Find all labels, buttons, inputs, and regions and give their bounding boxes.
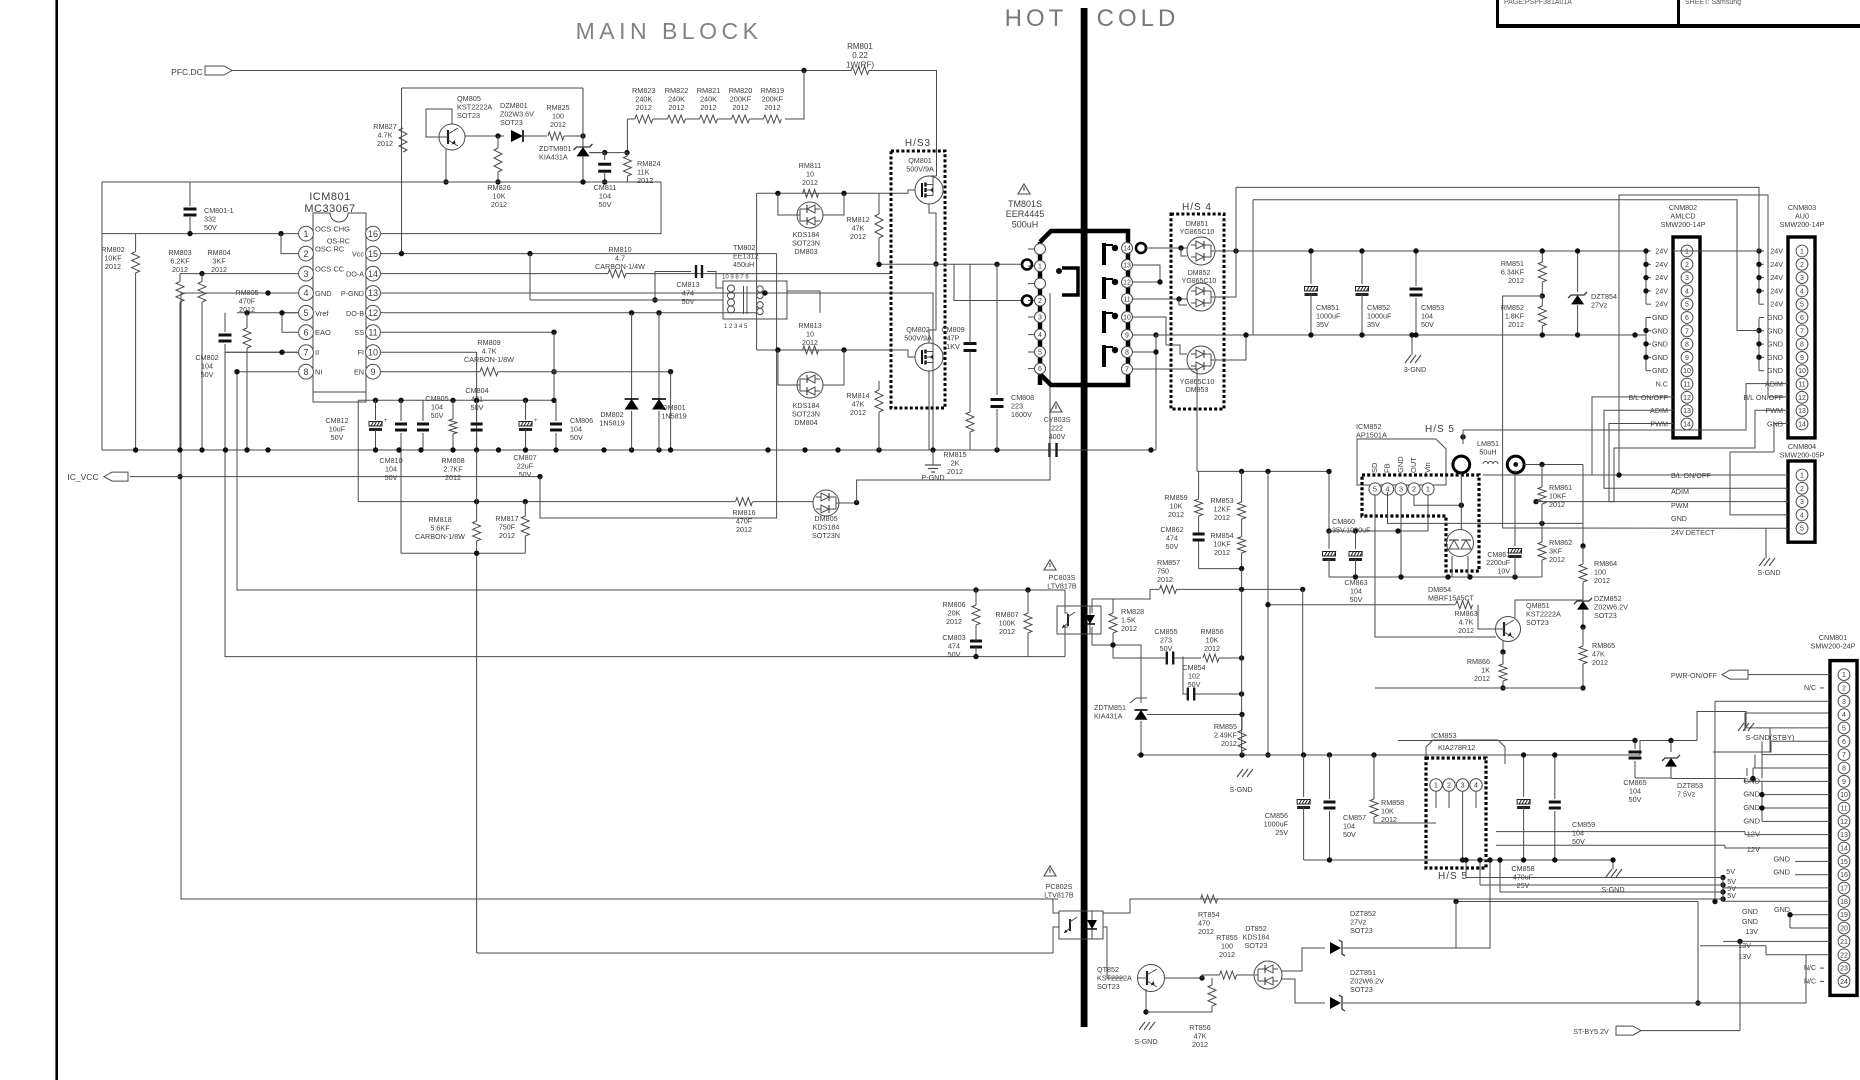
svg-text:LM85150uH: LM85150uH (1477, 439, 1499, 456)
wire qm851 collector (1515, 600, 1583, 618)
wire source node (879, 263, 1023, 265)
wire gate1 rail (757, 192, 890, 194)
wire pin4 route (1388, 495, 1584, 523)
wire gnd feeds 802 (1635, 334, 1646, 336)
capacitor CM803 (970, 640, 982, 643)
wire 5v bus (1722, 878, 1724, 902)
svg-text:DM8011N5819: DM8011N5819 (661, 403, 686, 420)
svg-text:8: 8 (1842, 766, 1846, 773)
diode DM802 (631, 313, 633, 399)
junction (1533, 499, 1538, 504)
wire dm852 out (1215, 251, 1236, 297)
wire (753, 501, 813, 503)
svg-text:16: 16 (368, 229, 378, 239)
svg-text:S-GND: S-GND (1757, 568, 1780, 577)
wire pin6 left (282, 313, 298, 332)
transistor QM802 (MOSFET) (915, 343, 943, 371)
resistor RM804 (198, 282, 206, 302)
junction (279, 310, 284, 315)
svg-text:1: 1 (1800, 249, 1804, 256)
svg-text:2: 2 (1800, 262, 1804, 269)
wire RM825 to node (564, 135, 583, 137)
junction (373, 398, 378, 403)
wire pgnd (932, 450, 934, 465)
junction (187, 231, 192, 236)
wire qt852 emitter (1145, 989, 1147, 1012)
wire reg bottom rail (1329, 576, 1542, 578)
resistor RM827 (399, 128, 407, 152)
svg-text:22: 22 (1840, 952, 1848, 959)
wire divider bottom (401, 552, 525, 554)
wire pin3 down (1400, 495, 1402, 577)
pin 10 FI (366, 345, 381, 360)
svg-text:2: 2 (1038, 298, 1042, 305)
wire qm851 emitter (1502, 641, 1504, 652)
resistor RM817 (521, 516, 529, 536)
svg-text:PAGE:PSPF381A01A: PAGE:PSPF381A01A (1504, 0, 1572, 6)
svg-text:GND: GND (1652, 366, 1668, 375)
transformer pin 1 (1035, 261, 1046, 272)
junction rail dots (133, 447, 138, 452)
wire pin15 net v (529, 254, 531, 300)
wire rm854 to rail (1241, 569, 1243, 590)
resistor RM866 (1499, 664, 1507, 681)
junction 5v bundle (1720, 875, 1725, 880)
capacitor CM859 (1554, 755, 1556, 799)
svg-text:HOT: HOT (1005, 5, 1068, 32)
svg-text:9: 9 (1800, 355, 1804, 362)
svg-text:9: 9 (1125, 333, 1129, 340)
wire 5v feed (1480, 884, 1723, 886)
transformer pin nc (1035, 278, 1046, 289)
junction (1632, 738, 1637, 743)
svg-text:GND: GND (1774, 905, 1790, 914)
pin 2 OSC RC (299, 246, 314, 261)
wire rm857 (1150, 588, 1159, 590)
svg-text:H/S3: H/S3 (905, 138, 931, 149)
wire dm803 loop (778, 193, 797, 215)
capacitor CM804 (476, 400, 478, 421)
junction (265, 290, 270, 295)
pin 11 SS (366, 325, 381, 340)
svg-text:SD: SD (1370, 462, 1379, 473)
wire bottom reg rail (1375, 687, 1583, 689)
wire QM802 source (928, 371, 930, 450)
svg-text:6: 6 (1800, 315, 1804, 322)
resistor RM813 (803, 346, 819, 354)
svg-text:GND: GND (1743, 816, 1760, 825)
svg-text:H/S 5: H/S 5 (1425, 424, 1455, 435)
pin 7 II (299, 345, 314, 360)
svg-text:7: 7 (1685, 328, 1689, 335)
capacitor CM810a (400, 400, 402, 421)
svg-text:11: 11 (368, 327, 377, 337)
svg-text:13: 13 (1798, 408, 1806, 415)
svg-text:S-GND: S-GND (1601, 885, 1624, 894)
wire 24v feeds 802 (1645, 251, 1647, 304)
wire gnd 803 p14 (1774, 424, 1788, 453)
wire pin2 stub (281, 234, 298, 254)
ground S-GND sec (1405, 355, 1425, 363)
wire rm863 left (1268, 604, 1455, 606)
wire icm853 pin lead (1435, 792, 1437, 809)
resistor RM856b (1203, 654, 1219, 662)
zener DZM852 (1577, 601, 1589, 610)
junction (1138, 752, 1143, 757)
svg-text:7: 7 (1800, 328, 1804, 335)
transformer pin 5 (1035, 347, 1046, 358)
pin 1 OCS CHG (299, 226, 314, 241)
CNM804 pin 4 label (1785, 514, 1788, 516)
svg-text:16: 16 (1840, 872, 1848, 879)
transformer pin 10 (1122, 312, 1133, 323)
diode DM801 (658, 313, 660, 399)
junction (1233, 248, 1238, 253)
svg-text:11: 11 (1840, 806, 1847, 813)
wire dzt852 out (1343, 860, 1490, 948)
pin 13 P-GND (366, 286, 381, 301)
svg-text:14: 14 (368, 269, 378, 279)
svg-text:PWR-ON/OFF: PWR-ON/OFF (1671, 671, 1718, 680)
wire pin9 (1133, 334, 1156, 336)
wire gnd bus 803 (1758, 318, 1760, 371)
wire stair v2 (1697, 902, 1699, 1004)
wire gnd rail sec2 (1311, 334, 1646, 336)
svg-text:10: 10 (368, 347, 378, 357)
svg-text:24V DETECT: 24V DETECT (1671, 528, 1715, 537)
svg-text:3: 3 (1038, 315, 1042, 322)
svg-text:24V: 24V (1770, 260, 1783, 269)
ground S-GND icm853 (1606, 869, 1626, 877)
svg-text:QM801500V/9A: QM801500V/9A (906, 156, 934, 173)
wire PWM 802 (1609, 424, 1788, 502)
wire pin11 SS (381, 331, 554, 333)
svg-text:2: 2 (1800, 486, 1804, 493)
svg-text:10: 10 (1840, 792, 1848, 799)
ICM853 pin 4 (1470, 779, 1482, 791)
wire rm816 row (358, 501, 735, 503)
svg-text:7: 7 (1842, 752, 1846, 759)
resistor RT854 (1201, 895, 1218, 903)
wire gnd rail sec (1156, 334, 1311, 336)
wire (653, 118, 668, 120)
wire lm851 right (1524, 464, 1583, 466)
capacitor CM860a (1328, 531, 1330, 549)
svg-text:GND: GND (1767, 326, 1783, 335)
transformer pin 3 (1035, 312, 1046, 323)
svg-text:12: 12 (1683, 395, 1691, 402)
wire x1268 drop (1267, 471, 1269, 755)
svg-text:GND: GND (1767, 353, 1783, 362)
zener DZT852 (1330, 942, 1341, 954)
svg-text:9: 9 (370, 367, 375, 377)
wire pin7 left (225, 351, 298, 353)
svg-text:24: 24 (1840, 979, 1848, 986)
CNM804 pin 2 label (1785, 487, 1788, 489)
svg-text:IC_VCC: IC_VCC (67, 472, 98, 482)
resistor RM812 (875, 214, 883, 238)
dual diode DM804 (797, 372, 823, 398)
wire long rail right (1456, 901, 1698, 903)
svg-text:12V: 12V (1747, 845, 1760, 854)
wire 24v rail (1215, 250, 1646, 252)
wire RM810 right (626, 273, 890, 275)
wire QM801 source (929, 204, 936, 264)
wire dzt851 out (1343, 955, 1806, 1003)
svg-text:3-GND: 3-GND (1404, 365, 1426, 374)
svg-text:13: 13 (368, 288, 378, 298)
svg-text:24V: 24V (1770, 286, 1783, 295)
wire gnd pins 9-12 (1762, 780, 1830, 782)
svg-text:PFC.DC: PFC.DC (171, 67, 203, 77)
resistor RM825 (548, 132, 564, 140)
svg-text:Vcc: Vcc (352, 250, 364, 259)
wire x756 drop (756, 193, 758, 350)
optocoupler PC802S (1044, 866, 1056, 876)
wire icm853 bottom rail (1304, 859, 1613, 861)
dual diode DM854 (1447, 530, 1474, 557)
pin 3 OCS CC (299, 266, 314, 281)
svg-text:5: 5 (1800, 302, 1804, 309)
wire pin14 DO-A (381, 273, 608, 275)
svg-text:1 2 3 4 5: 1 2 3 4 5 (724, 324, 748, 330)
junction (668, 369, 673, 374)
wire 13v pins (1723, 940, 1830, 942)
capacitor CM855 (1166, 652, 1168, 665)
resistor RM823 (635, 115, 653, 123)
resistor RM815 (966, 412, 974, 432)
junction (801, 68, 806, 73)
wire prim1 (1022, 264, 1023, 265)
wire opto802 left bot (477, 952, 1053, 954)
wire pin11 to dm852 (1133, 298, 1187, 300)
wire 24v feeds 803 (1758, 251, 1760, 304)
transformer pin 9 (1122, 330, 1133, 341)
junction (1353, 574, 1358, 579)
junction (244, 310, 249, 315)
wire rm851 tap (1503, 296, 1788, 528)
svg-text:2: 2 (1412, 485, 1416, 494)
wire RM809 right (498, 371, 671, 373)
sheet border (55, 0, 58, 1080)
junction (443, 179, 448, 184)
capacitor CM809 (964, 342, 977, 345)
svg-text:8: 8 (1125, 350, 1129, 357)
resistor RM805 (243, 328, 251, 348)
junction (580, 133, 585, 138)
resistor RM816 (736, 498, 753, 506)
ICM852 pin 3 (1395, 483, 1407, 495)
wire divider chain drop (785, 71, 804, 120)
junction (551, 330, 556, 335)
resistor RM858 (1370, 799, 1378, 817)
resistor RM852 (1538, 306, 1546, 326)
wire opto out bottom (1065, 627, 1068, 657)
svg-text:H/S 4: H/S 4 (1182, 202, 1212, 213)
svg-text:20: 20 (1840, 926, 1848, 933)
resistor RM863 (1456, 601, 1473, 609)
wire rt855 (1202, 975, 1220, 978)
svg-text:KIA278R12: KIA278R12 (1438, 743, 1475, 752)
dual diode DM851 (1187, 237, 1215, 265)
junction (973, 654, 978, 659)
heatsink H/S5b block (1426, 758, 1486, 868)
regulator ICM852 outline (1357, 439, 1446, 485)
wire dm852 loop (1179, 299, 1187, 305)
ground S-GND zd (1237, 769, 1257, 777)
wire gate2 rail (757, 349, 890, 351)
wire gnd rail in (1671, 779, 1762, 782)
svg-text:OSC RC: OSC RC (315, 245, 345, 254)
wire zener drop (582, 88, 584, 182)
junction (602, 179, 607, 184)
wire ADIM 802 (1604, 410, 1788, 488)
capacitor CM808 (996, 264, 998, 395)
svg-text:8: 8 (1685, 342, 1689, 349)
svg-text:24V: 24V (1655, 260, 1668, 269)
svg-text:ICM853: ICM853 (1431, 731, 1457, 740)
wire opto802 right top (1103, 899, 1723, 913)
capacitor CM807e (525, 400, 527, 420)
wire vcc drop (540, 254, 777, 518)
svg-text:4: 4 (1800, 512, 1804, 519)
junction (1540, 293, 1545, 298)
svg-text:NI: NI (315, 368, 323, 377)
svg-text:DT852KDS184SOT23: DT852KDS184SOT23 (1243, 924, 1270, 950)
svg-text:12: 12 (1798, 395, 1806, 402)
svg-text:17: 17 (1840, 886, 1848, 893)
wire 12v out (1613, 741, 1697, 756)
ICM853 pin 2 (1443, 779, 1455, 791)
wire 5v feed0 (1466, 877, 1723, 879)
svg-text:GND: GND (1743, 803, 1760, 812)
resistor RM821 (700, 115, 718, 123)
svg-text:II: II (315, 348, 319, 357)
svg-text:N.C: N.C (1656, 380, 1668, 389)
resistor RM865 (1579, 646, 1587, 664)
junction (279, 350, 284, 355)
optocoupler PC803S (1044, 560, 1056, 570)
pin 5 Vref (299, 305, 314, 320)
svg-text:P-GND: P-GND (921, 473, 944, 482)
svg-text:EN: EN (354, 368, 364, 377)
junction (973, 587, 978, 592)
svg-text:GND: GND (1767, 313, 1783, 322)
transformer pin 8 (1122, 347, 1133, 358)
capacitor CM861 (1514, 470, 1516, 546)
dual diode DM803 (797, 202, 823, 228)
svg-text:5V: 5V (1727, 891, 1736, 900)
svg-text:3: 3 (1399, 485, 1403, 494)
wire pin5 down (1375, 495, 1496, 637)
capacitor CM860b (1355, 531, 1357, 549)
resistor RM828 (1109, 613, 1117, 633)
wire (750, 118, 764, 120)
resistor RM861 (1538, 487, 1546, 504)
svg-text:GND: GND (1767, 366, 1783, 375)
svg-text:10 9 8 7 6: 10 9 8 7 6 (722, 275, 749, 281)
resistor RM814 (875, 390, 883, 412)
transformer pin 13 (1122, 260, 1133, 271)
ICM852 pin 2 (1408, 483, 1420, 495)
wire PFC.DC to RM801 (232, 70, 851, 72)
svg-text:3: 3 (1685, 275, 1689, 282)
svg-text:1: 1 (1426, 485, 1430, 494)
capacitor CM852 (1361, 251, 1363, 284)
svg-text:24V: 24V (1655, 247, 1668, 256)
wire 24v out (1582, 465, 1584, 547)
wire inductor riser (1460, 473, 1462, 529)
svg-text:1: 1 (1434, 781, 1438, 790)
transformer pin nc (1035, 244, 1046, 255)
wire pin13 jog (1133, 265, 1160, 282)
wire pin14 to dm851 (1146, 247, 1187, 249)
capacitor CM857 (1329, 755, 1331, 799)
wire gnd pins 15-16 (1795, 860, 1830, 862)
primary ring 1 (1022, 260, 1032, 270)
wire QM805 emitter (445, 149, 447, 182)
svg-text:8: 8 (303, 367, 308, 377)
svg-text:Vref: Vref (315, 309, 329, 318)
svg-text:S-GND: S-GND (1134, 1037, 1157, 1046)
wire pin3 route (1715, 700, 1830, 702)
svg-text:DO-A: DO-A (346, 270, 364, 279)
junction (775, 191, 780, 196)
wire dm805 out (839, 502, 857, 504)
transistor QM851 (1496, 617, 1521, 642)
wire stby to cnm (1697, 712, 1830, 741)
wire opto802 left top (1053, 899, 1059, 913)
wire dt852 top out (1282, 948, 1325, 971)
wire icm853 pin lead (1475, 792, 1477, 809)
wire top-left rail (102, 182, 661, 234)
wire pin3 left (180, 273, 298, 275)
svg-text:6: 6 (1685, 315, 1689, 322)
resistor RM808 (449, 419, 457, 434)
wire zd851 node (1147, 714, 1242, 716)
wire stby drop (1397, 740, 1399, 742)
svg-text:14: 14 (1123, 246, 1131, 253)
svg-text:4: 4 (303, 288, 308, 298)
wire reg top rail (1197, 470, 1329, 472)
svg-text:13: 13 (1840, 832, 1848, 839)
svg-text:24V: 24V (1770, 273, 1783, 282)
resistor RM801 (851, 67, 869, 75)
wire icm853 pin lead (1462, 792, 1464, 861)
svg-text:ZDTM851KIA431A: ZDTM851KIA431A (1094, 703, 1126, 720)
svg-text:+: + (384, 418, 388, 424)
svg-text:COLD: COLD (1097, 5, 1180, 32)
svg-text:PC802SLTV817B: PC802SLTV817B (1044, 882, 1074, 899)
dual diode DM805 (813, 490, 839, 516)
wire 12v winding feed (1133, 369, 1197, 471)
svg-text:DM805KDS184SOT23N: DM805KDS184SOT23N (812, 514, 840, 540)
capacitor CM851 (1310, 251, 1312, 284)
CNM804 pin 5 label (1785, 527, 1788, 529)
wire pin1 left (102, 233, 190, 235)
wire chain to RM824 node (626, 119, 628, 153)
capacitor CM806 (555, 400, 557, 421)
svg-text:2: 2 (1685, 262, 1689, 269)
H/S4 heatsink box (1171, 214, 1224, 409)
wire opto in top (1065, 590, 1068, 613)
pin 9 EN (366, 364, 381, 379)
wire pin4 left (181, 293, 1058, 899)
wire 12v pins (1745, 834, 1830, 836)
transformer TM802 windings (728, 285, 764, 315)
svg-text:DM8021N5819: DM8021N5819 (599, 410, 624, 427)
wire x1302 drop (1302, 589, 1304, 755)
